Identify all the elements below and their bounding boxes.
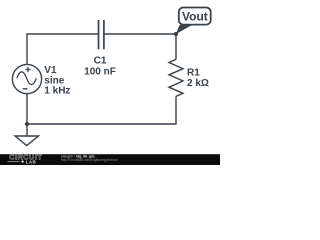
svg-text:1 kHz: 1 kHz [44,86,70,97]
watermark bar [0,154,220,165]
svg-text:R1: R1 [187,67,200,78]
wire top-right: capacitor right to Vout node, down to R1 [104,34,176,59]
ground [15,136,39,146]
Vout flag box [179,8,211,25]
wire bottom-right: R1 bottom to bottom rail [27,96,176,124]
svg-text:2 kΩ: 2 kΩ [187,78,209,89]
Vout flag tail [176,25,192,34]
svg-text:http://circuitlab.com/c/gahzmg: http://circuitlab.com/c/gahzmgv4nbsm [61,158,118,162]
capacitor C1 [99,20,104,49]
voltage source V1 [12,64,41,93]
wire left-bottom: V1 bottom to ground junction [26,94,28,136]
svg-text:V1: V1 [44,65,57,76]
svg-text:sine: sine [44,75,64,86]
wire top-left: V1 top to capacitor left [27,34,99,64]
watermark logo LAB row [8,160,37,165]
resistor R1 [169,59,183,96]
svg-text:C1: C1 [94,56,107,67]
node ground junction dot [25,122,29,126]
svg-text:Vout: Vout [182,10,208,24]
svg-text:100 nF: 100 nF [84,67,116,78]
svg-text:LAB: LAB [26,160,37,165]
node Vout junction dot [174,32,178,36]
